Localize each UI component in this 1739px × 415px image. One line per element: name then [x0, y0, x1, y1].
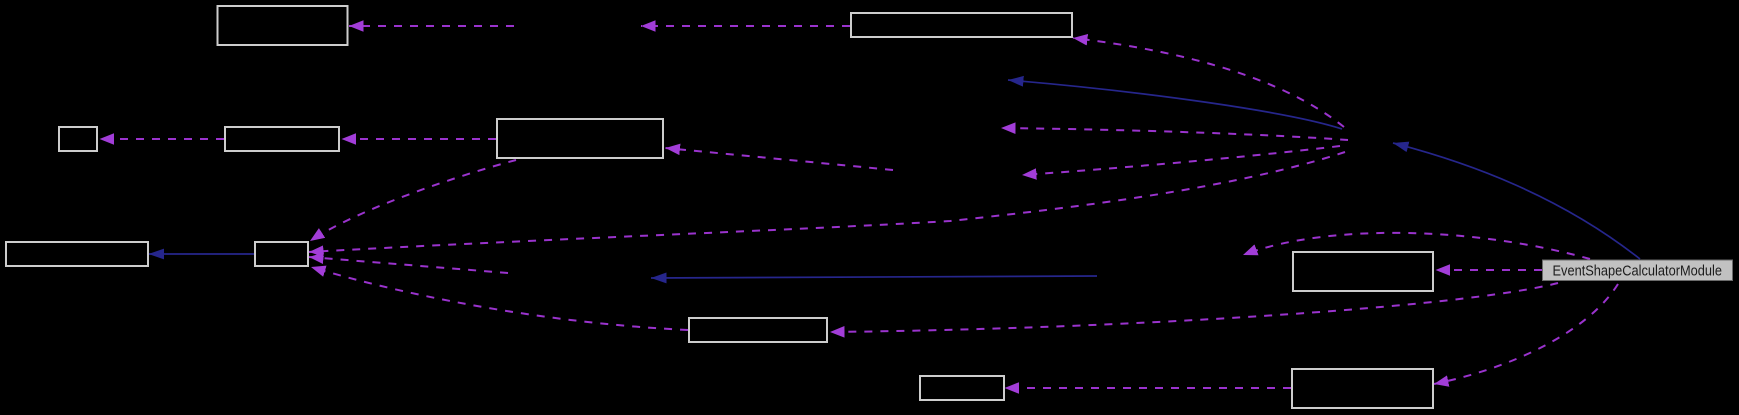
- node box B11 (bottom-right): [1292, 369, 1433, 408]
- node EventShapeCalculatorModule (main, grey filled): [1543, 260, 1733, 281]
- solid edge B7 to B6: [149, 253, 255, 255]
- dashed edge hidden hub HC to hidden node HD: [1022, 146, 1340, 175]
- dashed edge hidden hub HC to hidden node HB2: [1001, 128, 1348, 140]
- node box B3 (small left): [59, 127, 97, 151]
- node box B10 (bottom small): [920, 376, 1004, 400]
- node box B2 (top-middle): [851, 13, 1072, 37]
- dashed long edge hidden hub HC to B7: [309, 152, 1345, 252]
- dashed edge B11 to B10: [1005, 387, 1292, 389]
- solid edge hidden hub HC to hidden node HB: [1008, 80, 1342, 129]
- dashed edge B5 to B7: [310, 160, 516, 241]
- dashed edge B9 to B7: [311, 267, 688, 330]
- dashed edge EventShapeCalculatorModule to B8: [1436, 269, 1543, 271]
- dashed edge hidden node HD to B5: [666, 148, 894, 170]
- dashed edge EventShapeCalculatorModule over B8 to hidden node HF: [1243, 233, 1590, 259]
- node box B1 (top-left): [218, 6, 348, 45]
- node box B9 (bottom-middle): [689, 318, 827, 342]
- dashed edge B5 to B4: [342, 138, 497, 140]
- dashed edge hidden node HE to B7: [309, 257, 508, 273]
- dashed edge hidden hub HC to B2: [1073, 38, 1344, 127]
- dashed edge hidden node HA to B1: [349, 25, 514, 27]
- dashed edge B4 to B3: [100, 138, 225, 140]
- node box B6 (mid-left row): [6, 242, 148, 266]
- node box B4 (left): [225, 127, 339, 151]
- node box B5 (middle-left): [497, 119, 663, 158]
- svg-text:EventShapeCalculatorModule: EventShapeCalculatorModule: [1553, 263, 1723, 280]
- dashed edge EventShapeCalculatorModule to B11: [1434, 284, 1618, 384]
- dashed edge EventShapeCalculatorModule to B9: [830, 283, 1558, 332]
- node box B8 (right): [1293, 252, 1433, 291]
- node box B7 (small hub): [255, 242, 308, 266]
- dashed edge B2 to hidden node HA: [641, 25, 850, 27]
- solid edge hidden node HF to hidden node HE: [651, 276, 1097, 278]
- solid edge EventShapeCalculatorModule to hidden hub HC: [1393, 143, 1640, 259]
